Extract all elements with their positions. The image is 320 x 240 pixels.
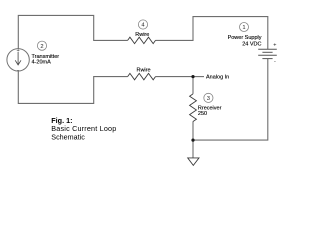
svg-text:+: + — [273, 43, 276, 49]
svg-text:Power Supply: Power Supply — [228, 35, 262, 41]
svg-text:-: - — [17, 67, 19, 73]
svg-text:Schematic: Schematic — [51, 132, 85, 141]
svg-text:2: 2 — [40, 44, 43, 50]
svg-text:4-20mA: 4-20mA — [32, 60, 52, 66]
svg-text:Rwire: Rwire — [136, 68, 150, 74]
svg-text:Rwire: Rwire — [135, 32, 149, 38]
svg-text:24 VDC: 24 VDC — [242, 41, 261, 47]
svg-text:250: 250 — [198, 111, 207, 117]
svg-text:1: 1 — [242, 25, 245, 31]
svg-text:-: - — [274, 59, 276, 65]
svg-text:+: + — [16, 48, 19, 54]
svg-text:Analog In: Analog In — [206, 75, 229, 81]
svg-text:3: 3 — [207, 96, 210, 102]
